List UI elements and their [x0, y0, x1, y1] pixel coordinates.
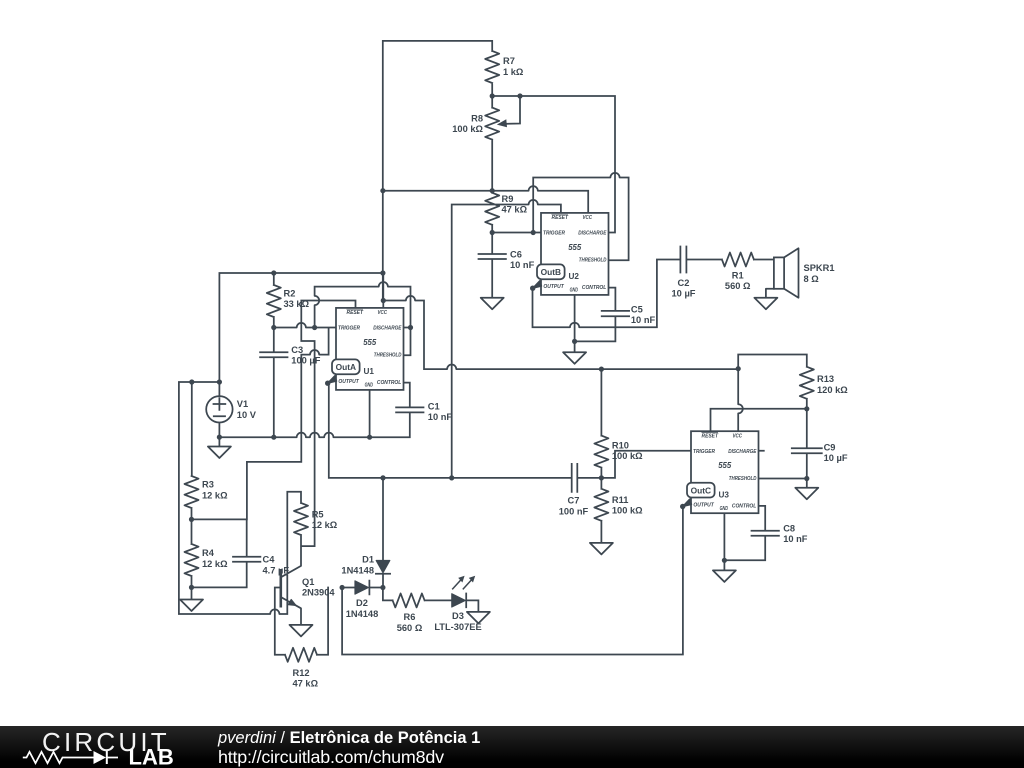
svg-text:DISCHARGE: DISCHARGE [373, 326, 402, 332]
svg-text:33 kΩ: 33 kΩ [284, 299, 310, 309]
svg-text:Q1: Q1 [302, 577, 314, 587]
svg-text:LAB: LAB [129, 744, 174, 768]
svg-text:R7: R7 [503, 56, 515, 66]
svg-text:C2: C2 [678, 278, 690, 288]
svg-text:100 kΩ: 100 kΩ [612, 506, 643, 516]
svg-text:2N3904: 2N3904 [302, 588, 335, 598]
svg-text:R8: R8 [471, 113, 483, 123]
svg-text:R5: R5 [312, 509, 324, 519]
svg-text:120 kΩ: 120 kΩ [817, 385, 848, 395]
svg-text:555: 555 [568, 243, 582, 252]
svg-text:GND: GND [720, 506, 728, 512]
svg-text:10 nF: 10 nF [510, 260, 535, 270]
svg-text:R11: R11 [612, 495, 629, 505]
svg-text:12 kΩ: 12 kΩ [202, 490, 228, 500]
svg-text:TRIGGER: TRIGGER [338, 326, 360, 332]
svg-text:GND: GND [570, 288, 578, 294]
svg-text:TRIGGER: TRIGGER [693, 449, 715, 455]
svg-text:CONTROL: CONTROL [582, 285, 606, 291]
svg-text:R12: R12 [293, 668, 310, 678]
svg-text:OUTPUT: OUTPUT [338, 379, 359, 385]
svg-text:SPKR1: SPKR1 [804, 263, 835, 273]
svg-text:R4: R4 [202, 548, 215, 558]
svg-text:D2: D2 [356, 598, 368, 608]
svg-text:10 µF: 10 µF [824, 453, 848, 463]
svg-text:C7: C7 [568, 496, 580, 506]
svg-text:1 kΩ: 1 kΩ [503, 67, 524, 77]
svg-text:D1: D1 [362, 555, 374, 565]
svg-text:C8: C8 [783, 523, 795, 533]
svg-text:10 µF: 10 µF [672, 289, 696, 299]
svg-text:R1: R1 [732, 270, 744, 280]
svg-text:8 Ω: 8 Ω [804, 274, 820, 284]
svg-text:47 kΩ: 47 kΩ [293, 679, 319, 689]
svg-text:R13: R13 [817, 374, 834, 384]
svg-text:OutC: OutC [691, 485, 711, 495]
svg-text:OUTPUT: OUTPUT [543, 284, 564, 290]
svg-text:10 nF: 10 nF [428, 412, 453, 422]
svg-text:C1: C1 [428, 401, 440, 411]
svg-text:100 kΩ: 100 kΩ [452, 124, 483, 134]
svg-text:OutA: OutA [336, 362, 356, 372]
svg-text:10 nF: 10 nF [631, 315, 656, 325]
svg-text:V1: V1 [237, 399, 248, 409]
svg-text:C4: C4 [263, 555, 276, 565]
svg-text:C3: C3 [291, 345, 303, 355]
svg-text:VCC: VCC [733, 433, 743, 439]
svg-text:R6: R6 [404, 612, 416, 622]
svg-text:VCC: VCC [583, 215, 593, 221]
svg-text:12 kΩ: 12 kΩ [312, 520, 338, 530]
svg-text:C9: C9 [824, 442, 836, 452]
svg-text:D3: D3 [452, 611, 464, 621]
svg-text:1N4148: 1N4148 [346, 609, 379, 619]
svg-text:12 kΩ: 12 kΩ [202, 559, 228, 569]
svg-text:R2: R2 [284, 288, 296, 298]
svg-text:1N4148: 1N4148 [341, 566, 374, 576]
svg-text:LTL-307EE: LTL-307EE [434, 622, 481, 632]
svg-text:10 nF: 10 nF [783, 534, 808, 544]
svg-text:560 Ω: 560 Ω [725, 281, 751, 291]
svg-text:TRIGGER: TRIGGER [543, 231, 565, 237]
svg-text:RESET: RESET [702, 433, 719, 439]
svg-text:THRESHOLD: THRESHOLD [374, 353, 402, 359]
svg-text:R9: R9 [502, 194, 514, 204]
svg-text:100 µF: 100 µF [291, 356, 320, 366]
svg-text:R3: R3 [202, 480, 214, 490]
svg-text:CONTROL: CONTROL [377, 380, 401, 386]
svg-text:U1: U1 [363, 367, 374, 376]
svg-text:560 Ω: 560 Ω [397, 623, 423, 633]
svg-text:R10: R10 [612, 440, 629, 450]
svg-text:GND: GND [365, 383, 373, 389]
svg-text:47 kΩ: 47 kΩ [502, 205, 528, 215]
svg-text:THRESHOLD: THRESHOLD [729, 476, 757, 482]
svg-text:555: 555 [363, 338, 377, 347]
svg-text:CONTROL: CONTROL [732, 503, 756, 509]
svg-text:C5: C5 [631, 304, 643, 314]
svg-text:VCC: VCC [378, 310, 388, 316]
svg-text:DISCHARGE: DISCHARGE [728, 449, 757, 455]
svg-text:RESET: RESET [347, 310, 364, 316]
svg-text:100 nF: 100 nF [559, 507, 589, 517]
svg-text:C6: C6 [510, 249, 522, 259]
svg-text:DISCHARGE: DISCHARGE [578, 231, 607, 237]
svg-text:U3: U3 [718, 490, 729, 499]
svg-text:4.7 µF: 4.7 µF [263, 565, 290, 575]
svg-text:RESET: RESET [552, 215, 569, 221]
svg-text:555: 555 [718, 461, 732, 470]
svg-text:10 V: 10 V [237, 410, 257, 420]
svg-text:OutB: OutB [541, 267, 561, 277]
svg-text:OUTPUT: OUTPUT [693, 502, 714, 508]
svg-text:100 kΩ: 100 kΩ [612, 451, 643, 461]
svg-text:U2: U2 [568, 272, 579, 281]
svg-text:THRESHOLD: THRESHOLD [579, 258, 607, 264]
